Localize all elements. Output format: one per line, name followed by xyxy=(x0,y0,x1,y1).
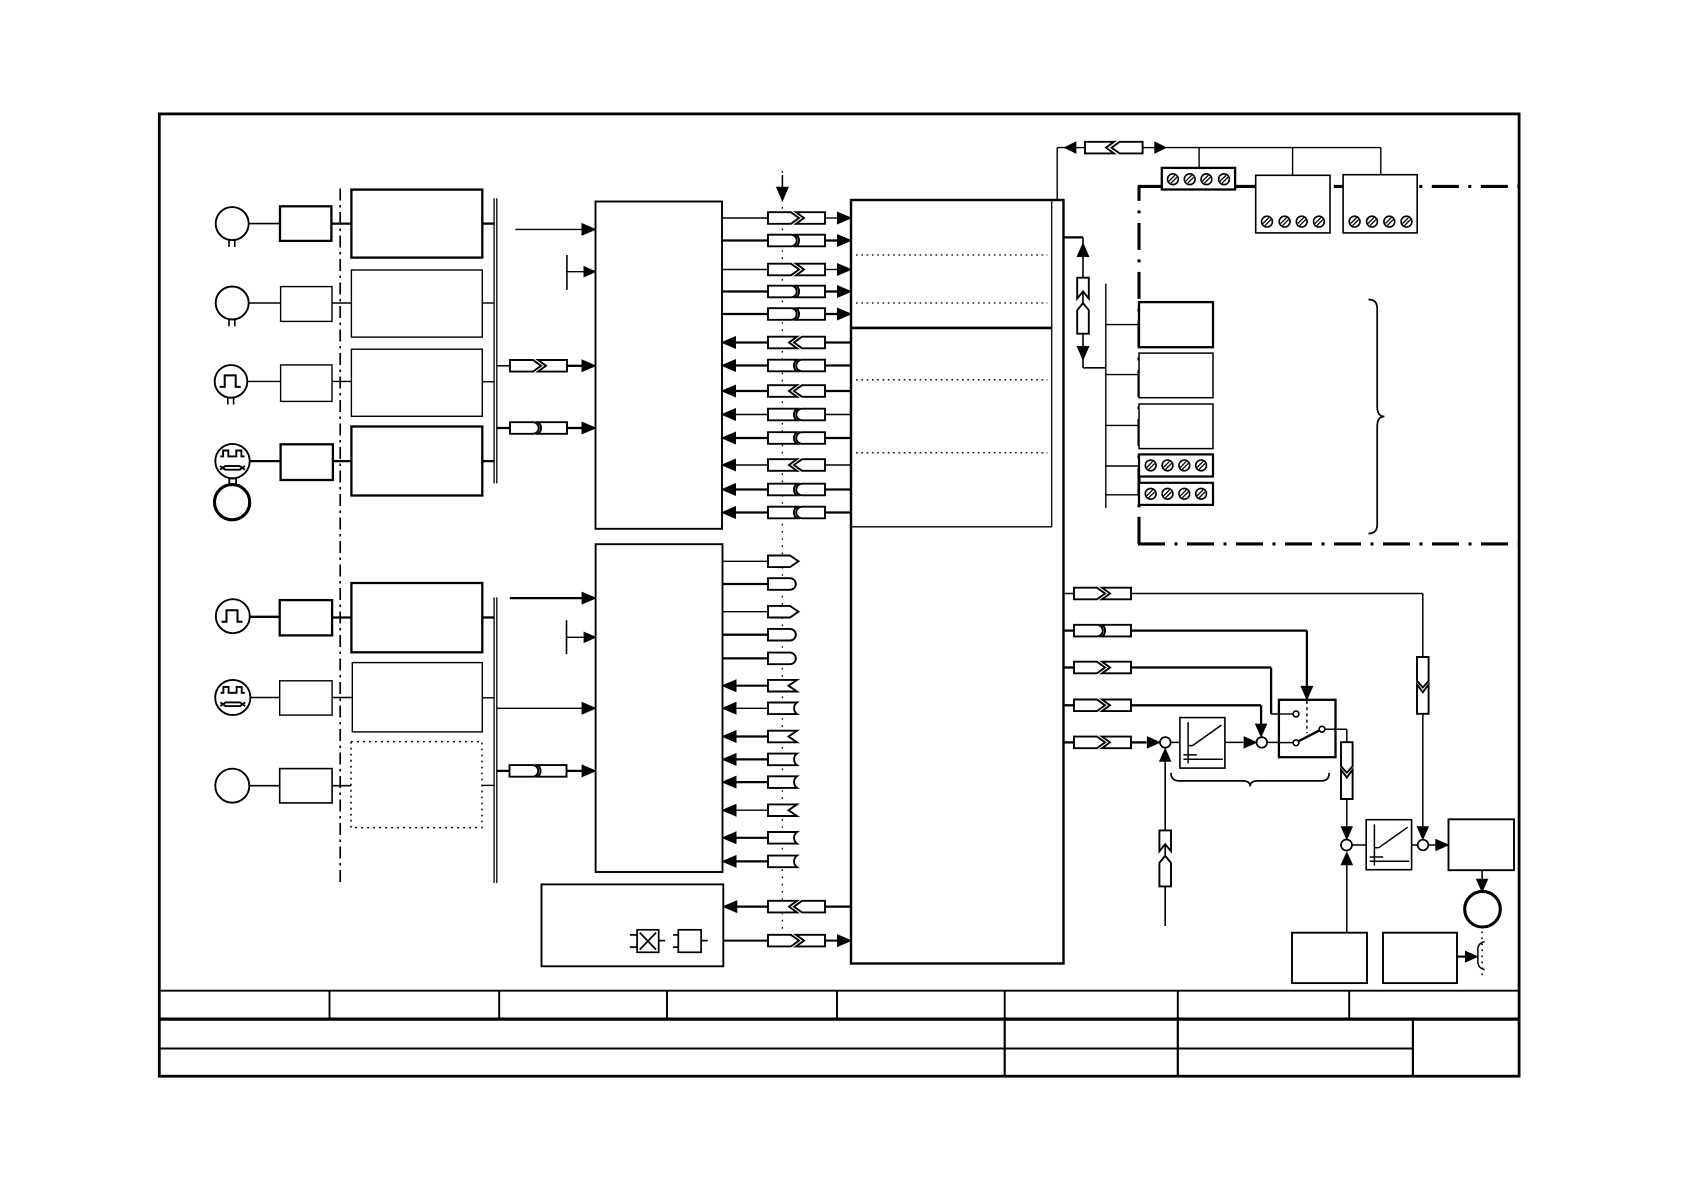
R1 dotted row 2 xyxy=(856,302,1048,304)
wire I8 to P1 xyxy=(735,511,768,513)
wire F2 to P2 xyxy=(736,707,768,709)
screw terminal S2.1 xyxy=(1145,488,1156,499)
evaluation box B3 xyxy=(351,349,482,416)
connector K2 analog xyxy=(510,422,539,434)
switch contact top xyxy=(1293,711,1299,717)
interface box A6 xyxy=(280,681,332,715)
screw terminal S2.4 xyxy=(1196,488,1207,499)
dotted boundary line vertical xyxy=(781,171,783,945)
internal bus upper xyxy=(493,198,495,483)
wire R1 to connector I7 xyxy=(825,488,851,490)
wire B2 to bus xyxy=(482,302,494,304)
connector M1 binector input xyxy=(794,901,825,913)
wire stub R1 row5 xyxy=(1064,741,1075,743)
connector I5 analog xyxy=(796,432,825,444)
wire PB to motor xyxy=(1481,870,1483,880)
wire A4 to B4 xyxy=(333,460,352,462)
wire A7 to dotted box xyxy=(332,785,351,787)
connector C1 binector xyxy=(1074,588,1105,600)
wire C1 long to right xyxy=(1131,593,1423,595)
option box D1 xyxy=(1139,302,1213,347)
wire stub to strip S1 xyxy=(1106,465,1139,467)
wire R1 to connector I2 xyxy=(825,364,851,366)
drawing frame border xyxy=(159,114,1519,1076)
wire F3 to P2 xyxy=(736,735,768,737)
wire O5 to R1 xyxy=(825,313,838,315)
connector C2 analog xyxy=(1074,625,1103,637)
interface box A4 xyxy=(281,444,333,480)
screw terminal X3.2 xyxy=(1367,216,1378,227)
encoder circle T4 xyxy=(215,444,249,478)
wire T3 to A3 xyxy=(247,380,280,382)
wire A6 to B6 xyxy=(332,697,352,699)
wire A1 to B1 xyxy=(331,222,351,224)
screw terminal X1.1 xyxy=(1168,174,1179,185)
option box D2 xyxy=(1139,353,1213,398)
wire B4 to bus xyxy=(482,460,494,462)
wire L2 to node N4 xyxy=(1412,844,1418,846)
connector I7 analog xyxy=(796,484,825,496)
processing box P1 xyxy=(596,202,723,529)
wire B5 to bus xyxy=(482,616,494,618)
interface box A1 xyxy=(280,206,331,241)
wire stub to strip S2 xyxy=(1106,494,1139,496)
dash-dot customer boundary vertical xyxy=(1137,186,1140,544)
wire I2 to P1 xyxy=(735,364,768,366)
vertical connector V3 xyxy=(1341,742,1353,773)
wire K2 to P1 xyxy=(567,427,582,429)
serial link line vertical xyxy=(1082,237,1084,367)
title block middle line xyxy=(158,1048,1413,1050)
wire N4 to power block xyxy=(1428,844,1435,846)
wire R1 to connector I4 xyxy=(825,414,851,416)
wire G2 to coupling xyxy=(1457,955,1465,957)
wire K3 to P2 xyxy=(567,770,583,772)
wire R1 to connector I1 xyxy=(825,341,851,343)
wire I3 to P1 xyxy=(735,390,768,392)
connector O5 analog xyxy=(768,308,797,320)
wire T1 to A1 xyxy=(249,223,280,225)
wire T2 to A2 xyxy=(249,302,281,304)
connector C5 binector xyxy=(1074,737,1105,749)
wire P2 output row 3 xyxy=(723,611,769,613)
output connector Q1 binector xyxy=(768,556,799,568)
output connector Q5 analog xyxy=(768,653,796,665)
wire T4 to A4 xyxy=(250,460,281,462)
wire N3 to ramp limiter L2 xyxy=(1352,844,1366,846)
wire I1 to P1 xyxy=(735,341,768,343)
connector I1 binector xyxy=(794,337,825,349)
interface box A2 xyxy=(281,287,332,322)
input flag F8 analog xyxy=(768,856,797,868)
output connector Q2 analog xyxy=(768,578,796,590)
mechanical coupling symbol xyxy=(1481,932,1483,980)
switch contact output xyxy=(1319,726,1325,732)
R1 bold divider xyxy=(851,327,1052,330)
wire I4 to P1 xyxy=(735,414,768,416)
wire C3 to switch top contact xyxy=(1131,666,1271,668)
ramp limiter block L2 xyxy=(1366,820,1411,870)
connector O4 analog xyxy=(768,286,797,298)
wire P2 output row 1 xyxy=(723,560,769,562)
wire stub R1 to serial link xyxy=(1064,236,1084,238)
screw terminal X2.2 xyxy=(1279,216,1290,227)
wire A3 to B3 xyxy=(332,380,351,382)
wire stub R1 row3 xyxy=(1064,666,1075,668)
encoder coupling square T4 xyxy=(229,479,236,485)
vertical connector V2 feedback xyxy=(1159,830,1171,851)
input flag F6 binector xyxy=(768,804,797,816)
R1 dotted row 4 xyxy=(856,452,1048,454)
wire distribution vertical x1106 xyxy=(1105,284,1107,508)
screw terminal S1.3 xyxy=(1179,460,1190,471)
input flag F4 analog xyxy=(768,754,797,766)
wire F4 to P2 xyxy=(736,758,768,760)
screw terminal S1.2 xyxy=(1162,460,1173,471)
connector I2 analog xyxy=(796,360,825,372)
evaluation box B6 xyxy=(352,663,482,732)
wire F5 to P2 xyxy=(736,781,768,783)
summing node N2 xyxy=(1257,737,1268,748)
wire F7 to P2 xyxy=(736,837,768,839)
wire P2 output row 2 xyxy=(723,583,769,585)
dash-dot boundary line left xyxy=(339,189,341,886)
switch lever xyxy=(1299,730,1320,741)
multiplier block inside P3 xyxy=(637,930,659,953)
wire A5 to B5 xyxy=(332,616,351,618)
wire I5 to P1 xyxy=(735,437,768,439)
wire P2 output row 4 xyxy=(723,634,769,636)
wire bus to P2 input 3 xyxy=(497,707,582,709)
title block column dividers lower rows xyxy=(1004,1019,1006,1076)
wire T7 to A7 xyxy=(249,785,279,787)
function block inside P3 xyxy=(678,930,701,953)
wire C4 to summing node xyxy=(1131,704,1261,706)
wire R1 to connector I5 xyxy=(825,437,851,439)
screw terminal S2.2 xyxy=(1162,488,1173,499)
changeover switch box SW xyxy=(1279,700,1336,757)
wire T5 to A5 xyxy=(250,616,280,618)
wire top distribution xyxy=(1166,147,1381,149)
output connector Q4 analog xyxy=(768,629,796,641)
wire C5 to node N1 xyxy=(1131,741,1147,743)
screw terminal X3.1 xyxy=(1349,216,1360,227)
dash-dot customer boundary top xyxy=(1138,185,1518,188)
wire V1 down to node xyxy=(1422,714,1424,828)
wire dotted box to bus xyxy=(482,784,494,786)
wire to P2 input 1 xyxy=(510,597,582,599)
wire T6 to A6 xyxy=(250,697,279,699)
arrow left top link xyxy=(1065,142,1076,153)
wire down to terminal box X3 xyxy=(1380,148,1382,175)
R1 thin divider xyxy=(851,526,1052,528)
wire stub R1 row2 xyxy=(1064,629,1075,631)
arrow down serial link xyxy=(1077,347,1089,360)
module box P3 xyxy=(542,884,724,966)
transducer circle T7 xyxy=(215,769,249,803)
screw terminal X2.1 xyxy=(1262,216,1273,227)
wire switch output xyxy=(1325,728,1347,730)
wire O4 to R1 xyxy=(825,290,838,292)
transducer circle T1 xyxy=(216,207,249,240)
option box D3 xyxy=(1139,404,1213,449)
vertical connector V1 xyxy=(1417,657,1429,688)
underbrace setpoint group xyxy=(1171,773,1329,787)
wire B6 to bus xyxy=(482,697,494,699)
pulse transducer circle T5 xyxy=(216,599,250,633)
arrow up serial link xyxy=(1077,244,1089,257)
terminal box X2 xyxy=(1256,175,1330,233)
R1 dotted row 3 xyxy=(856,379,1048,381)
wire F1 to P2 xyxy=(736,685,768,687)
connector I4 analog xyxy=(796,409,825,421)
serial link connector pair vertical xyxy=(1077,278,1089,299)
processing box P2 xyxy=(596,544,723,872)
screw terminal X1.3 xyxy=(1201,174,1212,185)
input flag F7 analog xyxy=(768,832,797,844)
wire corner into R1 top xyxy=(1056,148,1058,200)
internal bus lower xyxy=(493,597,495,883)
switch dashed actuator line xyxy=(1306,701,1308,733)
screw terminal X1.2 xyxy=(1184,174,1195,185)
wire B3 to bus xyxy=(482,381,494,383)
wire R1 to connector M1 xyxy=(825,905,851,907)
pulse transducer circle T3 xyxy=(215,365,248,398)
connector C4 binector xyxy=(1074,700,1105,712)
curly brace right group xyxy=(1369,300,1385,534)
feedback box G2 xyxy=(1383,933,1457,983)
wire P1 output row 4 xyxy=(722,290,768,292)
wire M1 to P3 xyxy=(737,905,768,907)
wire to link connector xyxy=(1076,147,1086,149)
connector C3 binector xyxy=(1074,662,1105,674)
connector O2 analog xyxy=(768,235,797,247)
wire P1 output row 2 xyxy=(722,239,768,241)
evaluation box B5 xyxy=(351,583,482,652)
wire serial link to distribution xyxy=(1083,367,1106,369)
evaluation box B1 xyxy=(351,190,482,258)
wire bus to connector K2 xyxy=(497,427,510,429)
interface box A3 xyxy=(281,365,332,402)
wire bus to connector K3 xyxy=(497,770,510,772)
wire A2 to B2 xyxy=(332,302,351,304)
wire P1 output row 1 xyxy=(722,217,768,219)
wire link connector to arrow xyxy=(1143,147,1156,149)
wire I6 to P1 xyxy=(735,464,768,466)
R1 dotted row 1 xyxy=(856,254,1048,256)
screw terminal X1.4 xyxy=(1219,174,1230,185)
wire inside switch to bottom contact xyxy=(1279,742,1293,744)
connector K3 analog xyxy=(510,765,539,777)
wire O1 to R1 xyxy=(825,217,838,219)
optional evaluation box dotted xyxy=(351,742,482,828)
wire P3 to connector M2 xyxy=(723,940,768,942)
connector M2 binector output xyxy=(768,935,799,947)
wire B1 to bus xyxy=(482,222,494,224)
encoder circle T6 xyxy=(215,680,250,715)
wire N2 to switch box xyxy=(1267,741,1293,743)
wire stub to D2 xyxy=(1106,374,1139,376)
evaluation box B2 xyxy=(351,270,482,337)
summing node N3 xyxy=(1341,840,1352,851)
screw terminal X2.3 xyxy=(1296,216,1307,227)
R1 inner column line xyxy=(1051,200,1053,527)
wire M2 to R1 xyxy=(825,940,837,942)
terminal strip S1 xyxy=(1139,454,1213,476)
evaluation box B4 xyxy=(351,427,482,496)
arrow input top xyxy=(781,175,783,190)
switch contact bottom xyxy=(1293,740,1299,746)
output node N4 xyxy=(1418,840,1429,851)
arrow right top link xyxy=(1155,142,1166,153)
feedback wire up to N1 xyxy=(1164,755,1166,926)
input flag F1 binector xyxy=(768,680,797,692)
connector I8 analog xyxy=(796,507,825,519)
wire O2 to R1 xyxy=(825,239,838,241)
wire I7 to P1 xyxy=(735,488,768,490)
title block column dividers top row xyxy=(329,991,331,1019)
title block bold separator line xyxy=(158,1017,1519,1020)
input flag F3 binector xyxy=(768,731,797,743)
connector O3 binector xyxy=(768,264,799,276)
screw terminal X3.4 xyxy=(1401,216,1412,227)
wire F8 to P2 xyxy=(736,860,768,862)
wire K1 to P1 xyxy=(567,365,582,367)
interface box A7 xyxy=(280,769,332,803)
wire C2 to switch xyxy=(1131,629,1307,631)
feedback wire from box G1 to N3 xyxy=(1346,859,1348,933)
transducer circle T2 xyxy=(216,287,249,320)
link connector K4 binector xyxy=(1085,142,1114,154)
wire P1 output row 3 xyxy=(722,269,768,271)
wire R1 to connector I6 xyxy=(825,464,851,466)
wire F6 to P2 xyxy=(736,809,768,811)
summing node N1 xyxy=(1160,737,1171,748)
wire down to terminal box X2 xyxy=(1292,148,1294,176)
wire P2 output row 5 xyxy=(723,657,769,659)
dash-dot customer boundary bottom xyxy=(1138,542,1518,545)
wire bus to connector K1 xyxy=(497,365,510,367)
control box R1 xyxy=(851,200,1064,964)
input flag F5 analog xyxy=(768,776,797,788)
screw terminal S1.1 xyxy=(1145,460,1156,471)
wire stub to D1 xyxy=(1106,324,1139,326)
connector I6 binector xyxy=(794,459,825,471)
wire N1 to ramp limiter xyxy=(1171,741,1180,743)
interface box A5 xyxy=(280,600,332,635)
motor circle M xyxy=(1465,891,1501,927)
ramp limiter block L1 xyxy=(1180,718,1225,769)
wire inside switch to top contact xyxy=(1279,713,1293,715)
screw terminal S2.3 xyxy=(1179,488,1190,499)
connector K1 binector xyxy=(510,360,541,372)
zero-set symbol T-bar upper xyxy=(566,255,568,290)
power block PB xyxy=(1449,819,1515,870)
screw terminal X2.4 xyxy=(1314,216,1325,227)
zero-set symbol T-bar lower xyxy=(566,620,568,654)
wire down to terminal strip X1 xyxy=(1198,148,1200,168)
wire L1 to node N2 xyxy=(1225,741,1243,743)
terminal strip X1 xyxy=(1162,168,1235,190)
wire P1 output row 5 xyxy=(722,313,768,315)
wire stub R1 row4 xyxy=(1064,704,1075,706)
feedback box G1 xyxy=(1292,933,1367,983)
terminal strip S2 xyxy=(1139,483,1213,505)
screw terminal X3.3 xyxy=(1384,216,1395,227)
connector I3 binector xyxy=(794,385,825,397)
screw terminal S1.4 xyxy=(1196,460,1207,471)
wire R1 to connector I3 xyxy=(825,390,851,392)
terminal box X3 xyxy=(1343,175,1417,233)
wire R1 to connector I8 xyxy=(825,511,851,513)
wire bus to P1 input 1 xyxy=(515,228,582,230)
motor circle M4 xyxy=(215,485,250,520)
output connector Q3 binector xyxy=(768,606,799,618)
input flag F2 analog xyxy=(768,703,797,715)
wire O3 to R1 xyxy=(825,269,838,271)
connector O1 binector xyxy=(768,212,799,224)
wire V3 to summing node N3 xyxy=(1346,799,1348,831)
wire stub R1 row1 xyxy=(1064,593,1075,595)
title block top line xyxy=(158,990,1519,992)
wire stub to D3 xyxy=(1106,424,1139,426)
